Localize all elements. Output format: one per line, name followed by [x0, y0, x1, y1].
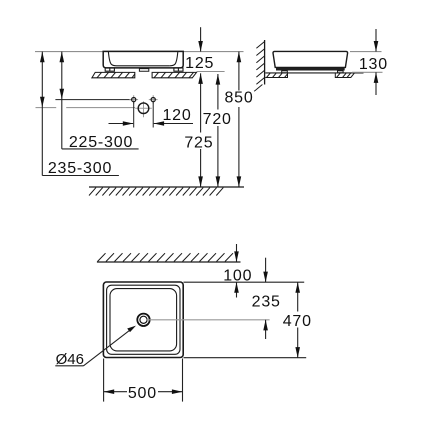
bowl inner curve left: [108, 52, 116, 66]
svg-text:500: 500: [128, 385, 157, 402]
svg-text:Ø46: Ø46: [56, 351, 84, 368]
basin plan rim inner: [110, 289, 177, 351]
500 extension line left: [103, 359, 105, 402]
dimension 720 line: [217, 74, 219, 187]
faucet hole centre line (dark): [55, 99, 131, 101]
wall hatching: [254, 42, 264, 92]
extension line counter right: [352, 71, 383, 73]
floor line: [89, 186, 244, 188]
side foot right: [338, 71, 344, 73]
svg-text:850: 850: [224, 90, 253, 107]
extension line basin top right: [350, 51, 382, 53]
bowl inner curve right: [170, 52, 178, 66]
drain inner circle: [140, 316, 147, 323]
dimension 130: [375, 29, 377, 52]
range line (grey): [36, 107, 57, 109]
basin foot right: [174, 68, 183, 71]
counter pad left: [265, 73, 287, 78]
extension line: basin top level: [35, 51, 244, 53]
label Ø46: [55, 365, 83, 367]
drain leader line: [84, 327, 134, 366]
dimension 125/725 line: [200, 27, 202, 51]
svg-text:235-300: 235-300: [48, 160, 112, 177]
label 235-300: [42, 175, 119, 177]
drain circle elevation: [138, 103, 149, 114]
svg-text:125: 125: [185, 55, 214, 72]
dimension 850 line: [238, 52, 240, 187]
drain outer circle: [137, 314, 149, 326]
svg-text:235: 235: [252, 294, 281, 311]
label 225-300: [62, 148, 139, 150]
svg-text:720: 720: [203, 111, 232, 128]
extension line: counter level right: [197, 71, 225, 73]
basin plan outer: [103, 282, 183, 358]
drain centre extension line: [146, 319, 270, 321]
countertop band left piece: [92, 72, 135, 77]
dimension 235: [265, 258, 267, 283]
basin plan rim middle: [107, 285, 180, 354]
dimension 100: [236, 244, 238, 262]
drain fitting under basin: [139, 69, 148, 72]
svg-text:120: 120: [162, 107, 191, 124]
basin foot left: [105, 68, 114, 71]
svg-text:130: 130: [359, 56, 388, 73]
countertop band right piece: [152, 72, 196, 77]
drain circle elevation crosshair: [143, 101, 145, 117]
svg-text:725: 725: [184, 135, 213, 152]
faucet hole left: [129, 95, 138, 104]
faucet hole right: [149, 95, 158, 104]
dimension 235-300 vertical line: [41, 52, 43, 176]
wall hatching plan: [98, 253, 234, 261]
extension line basin front edge: [184, 357, 307, 359]
floor hatching: [89, 188, 223, 196]
dimension 470: [297, 282, 299, 358]
svg-text:470: 470: [283, 313, 312, 330]
dimension 120: [109, 123, 134, 125]
counter line: [265, 72, 363, 74]
dimension 225-300 vertical line: [61, 52, 63, 149]
bowl inner bottom line: [117, 65, 170, 67]
wall line: [264, 40, 266, 85]
500 extension line right: [182, 359, 184, 402]
counter pad right: [335, 73, 354, 78]
svg-text:225-300: 225-300: [69, 134, 133, 151]
side foot left: [282, 71, 288, 73]
mounting frame band: [276, 68, 345, 71]
svg-text:100: 100: [223, 267, 252, 284]
faucet hole extension lines: [133, 102, 135, 128]
basin side profile: [273, 51, 348, 67]
extension line basin rear edge: [184, 281, 305, 283]
basin front outline: [103, 51, 183, 68]
wall line plan: [97, 261, 241, 263]
dimension 500: [104, 391, 183, 393]
